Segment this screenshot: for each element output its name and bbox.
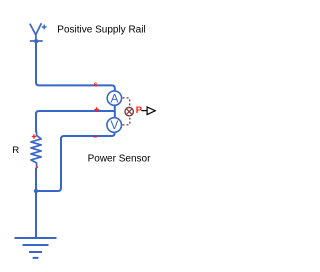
svg-text:Positive Supply Rail: Positive Supply Rail (57, 25, 145, 36)
svg-text:s: s (94, 82, 98, 89)
svg-text:R: R (12, 145, 19, 156)
svg-text:V: V (110, 118, 118, 132)
svg-text:Power Sensor: Power Sensor (88, 154, 151, 165)
svg-text:A: A (110, 91, 118, 105)
svg-text:P: P (136, 105, 142, 115)
